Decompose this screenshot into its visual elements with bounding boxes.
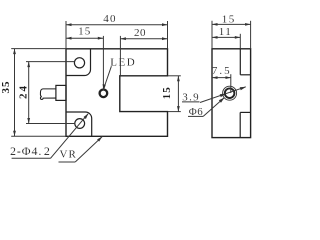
label 2-Φ4.2 leader arrow xyxy=(84,113,89,119)
right view body outline xyxy=(212,49,251,138)
label VR leader arrow xyxy=(97,137,102,142)
label 2-Φ4.2 leader line xyxy=(51,114,89,159)
svg-text:24: 24 xyxy=(18,84,30,99)
label Φ6 leader line xyxy=(203,98,224,117)
right view dim 7.5 line xyxy=(212,77,231,79)
LED leader line xyxy=(104,66,111,87)
right view dim 11 left arrow xyxy=(212,36,218,39)
extension line LED hole vertical xyxy=(102,36,104,90)
bottom-left boss edge with fillet xyxy=(66,112,92,136)
right view dim 11 line xyxy=(212,36,240,38)
extension line 35 bottom xyxy=(11,135,66,137)
svg-text:35: 35 xyxy=(0,81,12,94)
label 2-Φ4.2 underline xyxy=(12,157,51,159)
right view extension middle xyxy=(239,34,241,49)
right view notch top-right horizontal xyxy=(240,74,250,76)
extension line 24 top xyxy=(26,61,75,63)
extension line slot left wall xyxy=(119,36,121,76)
top-left boss edge with fillet xyxy=(66,49,91,76)
right view dim 15 line xyxy=(212,23,251,25)
extension line body right top xyxy=(167,21,169,49)
right view extension left xyxy=(211,21,213,49)
svg-text:2-Φ4.2: 2-Φ4.2 xyxy=(10,144,51,158)
label 3.9 leader end arrow xyxy=(240,87,247,91)
svg-text:15: 15 xyxy=(161,86,173,99)
slot dim 15 line xyxy=(177,76,179,112)
slot dim 15 top arrow xyxy=(177,76,180,82)
dim 24 top arrow xyxy=(27,62,30,68)
dim 35 bottom arrow xyxy=(13,131,16,137)
right view dim 15 left arrow xyxy=(212,23,218,26)
label VR underline xyxy=(59,161,76,163)
mounting hole top (2-Φ4.2) xyxy=(74,58,84,68)
label 3.9 underline xyxy=(182,101,200,103)
label Φ6 underline xyxy=(188,115,203,117)
extension line 35 top xyxy=(11,48,66,50)
dim 20 line xyxy=(120,38,167,40)
dim 24 line xyxy=(28,62,30,124)
slot dim 15 extension top xyxy=(168,75,181,77)
svg-text:15: 15 xyxy=(78,26,91,38)
label Φ6 leader arrow xyxy=(219,98,225,103)
svg-text:40: 40 xyxy=(103,13,116,25)
sensor hole inner circle xyxy=(225,88,235,98)
extension line 24 bottom xyxy=(26,123,75,125)
LED hole xyxy=(100,90,108,98)
right view dim 7.5 left arrow xyxy=(212,76,218,79)
LED leader arrow xyxy=(103,84,106,90)
extension line body left top xyxy=(65,21,67,49)
dim 35 line xyxy=(14,49,16,137)
dim 40 line xyxy=(66,24,168,26)
slot dim 15 bottom arrow xyxy=(177,106,180,112)
slot dim 15 extension bottom xyxy=(168,111,181,113)
dim 24 bottom arrow xyxy=(27,118,30,124)
VR shaft flange xyxy=(56,85,66,100)
right view dim 7.5 right arrow xyxy=(226,76,232,79)
right view notch top-right vertical xyxy=(239,49,241,75)
left view body outline xyxy=(66,49,168,137)
right view step bottom-right vertical xyxy=(239,112,241,137)
mounting hole bottom (2-Φ4.2) xyxy=(75,119,85,129)
dim 40 left arrow xyxy=(66,23,72,26)
svg-text:7.5: 7.5 xyxy=(212,65,232,77)
right view hole center vertical line xyxy=(230,74,232,93)
right view extension right xyxy=(250,21,252,49)
label VR leader line xyxy=(75,137,102,163)
label 3.9 leader line xyxy=(200,87,246,103)
dim 40 right arrow xyxy=(162,23,168,26)
svg-text:20: 20 xyxy=(134,27,146,39)
svg-text:15: 15 xyxy=(222,13,236,25)
VR shaft xyxy=(40,89,56,100)
svg-text:VR: VR xyxy=(60,149,77,161)
dim 15 right arrow xyxy=(98,37,104,40)
right view dim 15 right arrow xyxy=(245,23,251,26)
dim 15 left arrow xyxy=(66,37,72,40)
svg-text:LED: LED xyxy=(110,56,136,68)
dim 15 line (top left) xyxy=(66,37,103,39)
right view dim 11 right arrow xyxy=(235,36,241,39)
label 3.9 leader mid arrow xyxy=(220,94,227,98)
dim 35 top arrow xyxy=(13,49,16,55)
right view step bottom-right horizontal xyxy=(240,111,250,113)
sensor hole outer circle Φ6 xyxy=(223,86,237,100)
svg-text:11: 11 xyxy=(219,26,233,38)
dim 20 left arrow xyxy=(120,37,126,40)
dim 20 right arrow xyxy=(162,37,168,40)
